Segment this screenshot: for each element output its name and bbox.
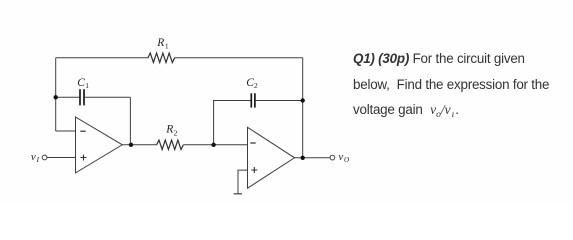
wire C1 left lead: [56, 96, 80, 98]
wire C2 right lead: [255, 100, 303, 102]
resistor R2: [157, 140, 184, 149]
svg-text:2: 2: [174, 129, 178, 138]
wire R2 to opamp2 inverting input: [183, 144, 247, 146]
capacitor C1: [80, 89, 84, 105]
node junction dot output: [301, 156, 305, 160]
node junction dot C2 / right rail: [301, 98, 305, 102]
node junction dot left rail / C1: [54, 95, 58, 99]
node junction dot R2 / C2: [211, 143, 215, 147]
resistor R1: [148, 53, 175, 62]
label vI: [31, 151, 40, 164]
wire vI to opamp1 noninverting input: [47, 157, 75, 159]
ground: [234, 193, 242, 195]
label R2: [165, 124, 177, 138]
label R1: [156, 37, 169, 51]
capacitor C2: [251, 93, 255, 107]
wire C1 right lead: [84, 96, 130, 98]
svg-text:v: v: [31, 151, 36, 163]
wire opamp2 noninverting input to ground: [238, 170, 248, 194]
label C1: [77, 77, 89, 90]
wire left rail down: [55, 58, 57, 131]
svg-text:1: 1: [165, 42, 169, 51]
op-amp U2 minus pin: [250, 142, 255, 144]
svg-text:R: R: [156, 37, 164, 49]
op-amp U1 plus pin: [81, 155, 87, 161]
op-amp U2: [248, 127, 295, 188]
label vO: [338, 151, 350, 164]
svg-text:I: I: [36, 155, 40, 164]
op-amp U1: [76, 117, 123, 173]
wire right rail down: [302, 58, 304, 158]
svg-text:O: O: [344, 156, 350, 164]
node junction dot opamp1 output: [129, 143, 133, 147]
wire opamp2 output to vO: [295, 157, 331, 159]
wire opamp1 output to R2: [122, 144, 156, 146]
svg-text:1: 1: [85, 81, 89, 90]
wire top rail left segment: [56, 57, 148, 59]
op-amp U2 plus pin: [251, 167, 257, 173]
svg-text:C: C: [77, 77, 85, 89]
wire op-amp1 inverting input: [56, 130, 76, 132]
svg-text:2: 2: [254, 81, 258, 90]
problem statement text: [353, 46, 568, 126]
svg-text:v: v: [338, 151, 343, 163]
terminal vO: [330, 155, 335, 160]
op-amp U1 minus pin: [80, 130, 85, 132]
wire top rail right segment: [175, 57, 303, 59]
terminal vI: [42, 155, 47, 160]
wire node to C2 left: [214, 101, 251, 145]
label C2: [246, 77, 258, 90]
wire C1 to opamp1 output node: [129, 97, 131, 145]
svg-text:R: R: [165, 124, 173, 136]
